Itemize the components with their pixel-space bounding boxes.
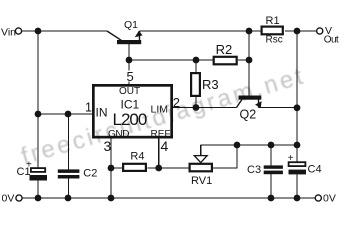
svg-text:4: 4 <box>161 138 169 154</box>
junction Q1 base node <box>126 57 133 64</box>
svg-text:C3: C3 <box>247 164 261 176</box>
junction pin3 / ground rail <box>108 195 115 202</box>
svg-text:Q1: Q1 <box>124 19 138 31</box>
junction Q2 emitter / output rail <box>294 104 301 111</box>
IC1 pin 2 label <box>173 95 180 110</box>
wire RV1 right terminal up to reference rail <box>213 145 237 168</box>
wire base junction to R2 <box>129 59 213 61</box>
wire Vin to Q1 emitter <box>22 30 107 32</box>
junction pin1 / C2 branch <box>65 111 72 118</box>
wire input rail down to C1 <box>37 31 39 168</box>
terminal Vin <box>1 27 22 39</box>
svg-text:+: + <box>288 153 294 164</box>
wire Q2 base rail (down from R1 left node) <box>248 31 250 96</box>
wire reference rail to C4 <box>237 144 297 146</box>
svg-text:1: 1 <box>85 101 92 115</box>
svg-text:Vin: Vin <box>1 27 16 39</box>
svg-text:Q2: Q2 <box>240 108 257 122</box>
junction Vin / C1 branch <box>35 28 42 35</box>
transistor Q2 <box>237 96 262 122</box>
ground rail (bottom wire) <box>23 197 316 199</box>
svg-text:OUT: OUT <box>119 86 140 97</box>
junction C4 / ground rail <box>294 195 301 202</box>
wire R3 top lead <box>195 60 197 72</box>
svg-text:R4: R4 <box>130 150 144 162</box>
wire Q1 collector to R1 <box>140 30 263 32</box>
junction R1 right / output rail <box>294 28 301 35</box>
wire R2 to Q2 base rail <box>238 59 249 61</box>
junction C2 / ground rail <box>65 195 72 202</box>
capacitor C1 (electrolytic) <box>17 160 48 198</box>
junction RV1 / reference rail <box>234 142 241 149</box>
junction pin1 / C1 rail <box>35 111 42 118</box>
terminal 0V right <box>315 192 336 204</box>
svg-text:5: 5 <box>127 69 134 84</box>
wire Q1 base to junction <box>128 44 130 60</box>
potentiometer RV1 <box>190 145 213 187</box>
IC U1 L200 <box>93 85 171 140</box>
resistor R2 <box>214 42 237 64</box>
capacitor C3 <box>247 145 283 198</box>
wire R4 right lead to RV1 <box>148 167 189 169</box>
capacitor C2 <box>58 114 98 198</box>
wire R1 to output terminal <box>285 30 317 32</box>
svg-text:0V: 0V <box>323 192 336 204</box>
junction pin3 / R4 <box>108 165 115 172</box>
IC1 pin 4 lead <box>159 138 169 168</box>
svg-text:R2: R2 <box>216 42 233 57</box>
transistor Q1 <box>107 19 143 44</box>
wire R3 bottom lead <box>195 97 197 107</box>
wire output rail down right side <box>296 31 298 162</box>
svg-text:IN: IN <box>96 105 108 119</box>
svg-text:C2: C2 <box>83 167 97 179</box>
junction R3 bottom on LIM wire <box>193 104 200 111</box>
terminal V Out <box>317 25 339 46</box>
wire IC pin2 to Q2 collector <box>173 107 237 109</box>
resistor R1 (Rsc) <box>262 15 283 46</box>
junction R1 left <box>246 28 253 35</box>
wire Q2 emitter to output rail <box>259 107 298 109</box>
svg-text:R1: R1 <box>266 15 280 27</box>
svg-text:freecircuitdiagram.net: freecircuitdiagram.net <box>18 62 308 170</box>
wire RV1 wiper to reference rail <box>201 144 237 146</box>
junction C4 top / output rail bottom <box>294 142 301 149</box>
terminal 0V left <box>2 193 23 205</box>
svg-text:Out: Out <box>324 35 339 46</box>
junction R2 right / Q2 base <box>246 57 253 64</box>
resistor R4 <box>123 150 146 171</box>
junction R2 / R3 node <box>193 57 200 64</box>
junction C3 top <box>268 142 275 149</box>
resistor R3 <box>191 73 219 96</box>
svg-text:RV1: RV1 <box>191 175 212 187</box>
IC1 pin 1 lead <box>38 101 93 115</box>
junction C3 / ground rail <box>268 195 275 202</box>
capacitor C4 (electrolytic) <box>288 153 322 198</box>
junction pin4 / R4 right <box>155 165 162 172</box>
IC1 pin 3 lead <box>104 138 112 199</box>
svg-text:Rsc: Rsc <box>266 35 283 46</box>
wire R4 left lead <box>111 167 123 169</box>
junction C1 / ground rail <box>35 195 42 202</box>
svg-text:0V: 0V <box>2 193 15 205</box>
svg-text:C4: C4 <box>308 164 322 176</box>
IC1 pin 5 lead <box>125 60 134 84</box>
